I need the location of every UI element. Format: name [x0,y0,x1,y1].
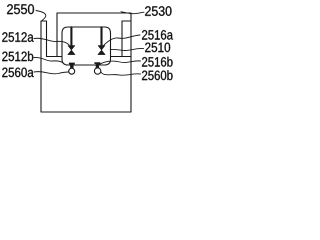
leader line 2512a [34,38,69,45]
leader line 2510 [110,48,143,50]
left contact tip 2512b (triangle up) [68,50,75,54]
right post inner edge [121,21,123,57]
leader line 2560a [34,72,69,74]
right arrow 2516a shaft [100,27,102,46]
right arrow 2516a head [98,46,105,50]
label 2512a [2,32,33,42]
solder ball 2560b (right circle) [94,68,100,74]
right outer wall [130,13,132,112]
left arrow 2512a shaft [70,27,72,46]
label 2516b [142,57,172,67]
leader line 2550 [36,11,46,21]
chip body 2510 (rounded capsule) [62,27,111,65]
leader line 2516a [104,35,140,45]
left arrow 2512a head [68,46,75,50]
left post inner edge [46,21,48,57]
leader line 2512b [34,57,64,63]
label 2516a [142,30,173,40]
leader line 2560b [101,72,141,75]
right pad nub [94,62,100,68]
leader line 2530 [121,12,144,14]
label 2560a [2,68,33,78]
solder ball 2560a (left circle) [69,68,75,74]
bottom tray 2560 outline [41,21,131,112]
right post top edge [122,20,131,22]
upper plate 2530 outline [57,13,131,57]
left post top edge [41,20,47,22]
label 2510 [145,43,170,53]
tray floor line [47,56,132,58]
label 2550 [7,4,34,14]
leader line 2516b [97,61,141,67]
label 2560b [142,70,172,80]
label 2512b [2,51,33,61]
label 2530 [145,6,171,16]
right contact tip 2516b (triangle up) [98,50,105,54]
left pad nub [69,63,75,69]
